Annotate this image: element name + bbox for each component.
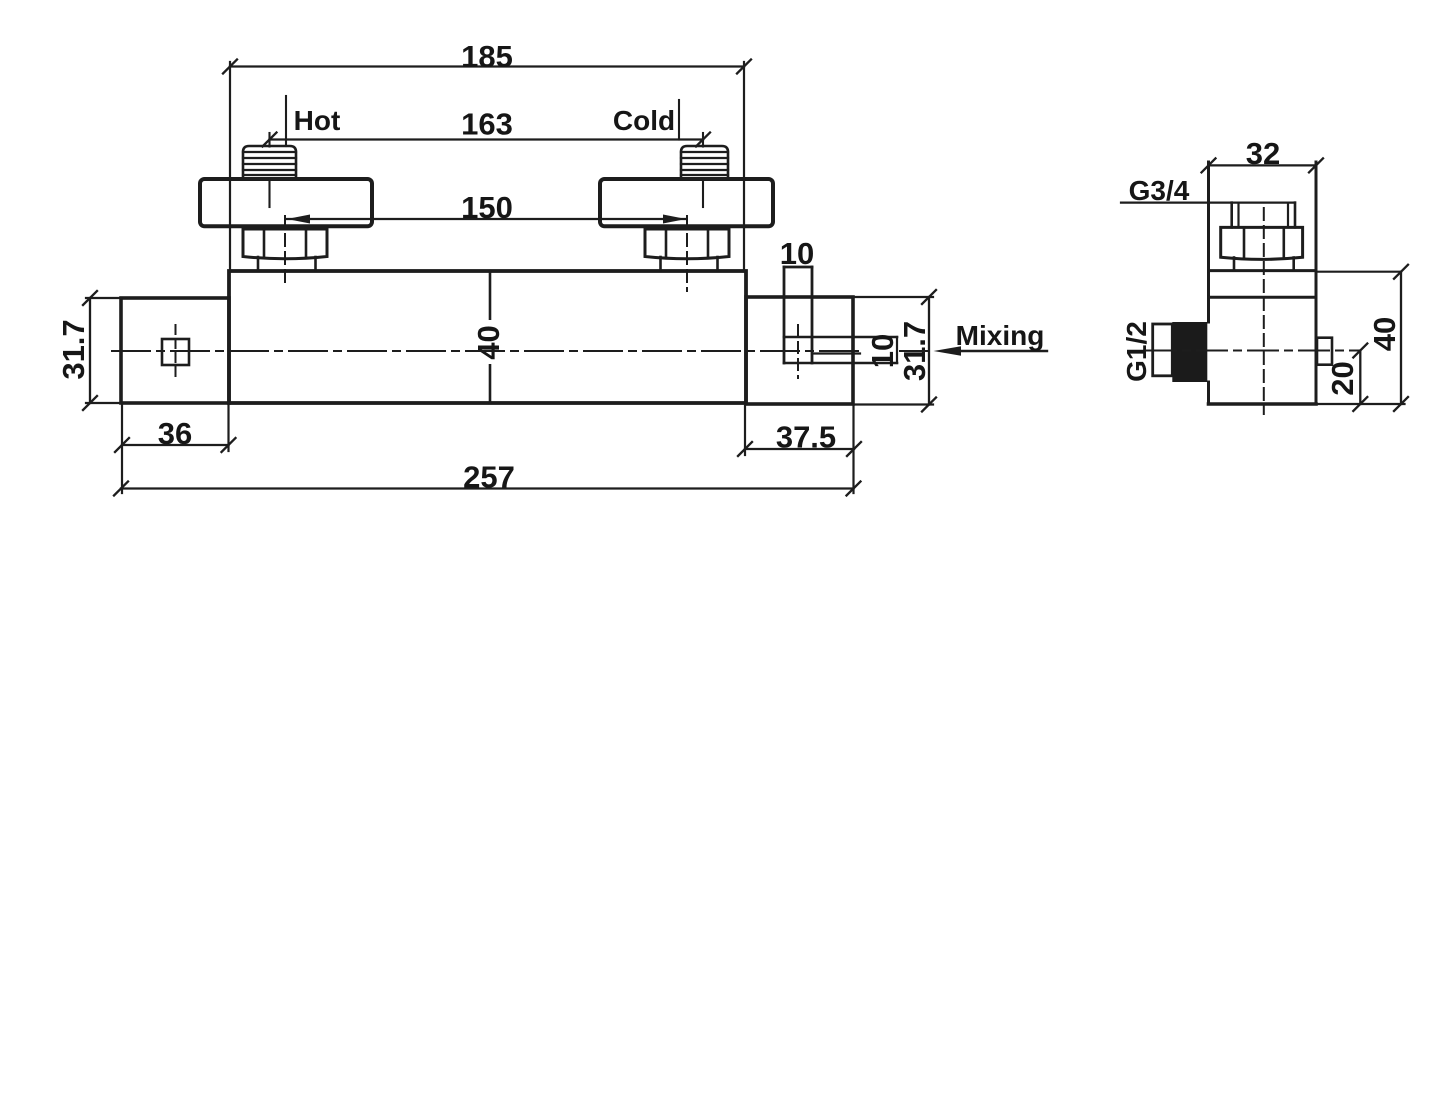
main body front view [229, 271, 746, 403]
left end block [121, 298, 229, 403]
main horizontal centerline [112, 350, 929, 352]
hot nipple [258, 257, 316, 271]
svg-text:32: 32 [1246, 136, 1280, 171]
dimension 185 [223, 39, 751, 271]
svg-text:36: 36 [158, 416, 192, 451]
Mixing arrow [934, 346, 1048, 356]
side outlet square [1317, 338, 1332, 365]
svg-text:31.7: 31.7 [56, 319, 91, 379]
left block screw hole square [162, 339, 189, 365]
hot wall plate [200, 179, 372, 226]
label Mixing [956, 320, 1045, 351]
svg-text:Cold: Cold [613, 105, 675, 136]
Cold leader line [678, 100, 680, 140]
svg-text:10: 10 [780, 236, 814, 271]
dimension 40 front (rotated) [471, 320, 506, 364]
label G1/2 (rotated) [1121, 321, 1152, 382]
cold inlet thread [681, 146, 728, 178]
dimension 257 [114, 405, 861, 496]
outlet pipe centerline [797, 325, 799, 378]
outlet horizontal tube [784, 337, 897, 363]
cold wall plate [600, 179, 773, 226]
hot centerline dashes [284, 216, 286, 284]
dimension 150 [287, 190, 686, 225]
svg-text:150: 150 [461, 190, 513, 225]
hot inlet thread [243, 146, 296, 178]
dimension 10 outlet (rotated) [865, 334, 900, 368]
side vertical centerline [1263, 208, 1265, 414]
outlet riser pipe [784, 267, 812, 363]
dimension 37.5 [738, 406, 861, 456]
side horizontal centerline [1146, 350, 1358, 352]
cold backnut [645, 229, 729, 259]
dimension 31.7 right (rotated) [854, 290, 937, 412]
G3/4 thread [1232, 203, 1295, 228]
body center divider [489, 271, 492, 403]
left screw vertical centerline [175, 325, 177, 379]
Hot leader line [285, 96, 287, 146]
svg-text:257: 257 [463, 460, 515, 495]
svg-text:37.5: 37.5 [776, 420, 836, 455]
dimension 10 riser [780, 236, 814, 271]
svg-text:40: 40 [1367, 317, 1402, 351]
dimension 163 [263, 107, 711, 147]
svg-text:40: 40 [471, 325, 506, 359]
svg-text:10: 10 [865, 334, 900, 368]
svg-text:20: 20 [1325, 361, 1360, 395]
svg-text:Hot: Hot [294, 105, 341, 136]
label Hot [294, 105, 341, 136]
svg-text:Mixing: Mixing [956, 320, 1045, 351]
G1/2 thread block [1172, 322, 1207, 382]
dimension 36 [115, 405, 236, 452]
dimension 32 [1202, 136, 1324, 172]
cold nipple [661, 257, 718, 271]
side view body [1209, 162, 1317, 404]
G3/4 label and leader [1121, 175, 1295, 206]
svg-text:185: 185 [461, 39, 513, 74]
hot backnut [243, 229, 327, 259]
G1/2 collar [1153, 324, 1173, 376]
cold 163 extension line [702, 133, 704, 207]
G3/4 nipple [1234, 258, 1294, 271]
dimension 31.7 left (rotated) [56, 291, 121, 410]
dimension 40 side (rotated) [1316, 265, 1408, 411]
cold centerline dashes [686, 216, 688, 291]
G3/4 backnut [1221, 227, 1303, 259]
label Cold [613, 105, 675, 136]
hot 163 extension line [268, 133, 270, 207]
svg-text:163: 163 [461, 107, 513, 142]
svg-text:G3/4: G3/4 [1129, 175, 1190, 206]
right end block [746, 297, 853, 404]
dimension 20 (rotated) [1316, 344, 1405, 412]
